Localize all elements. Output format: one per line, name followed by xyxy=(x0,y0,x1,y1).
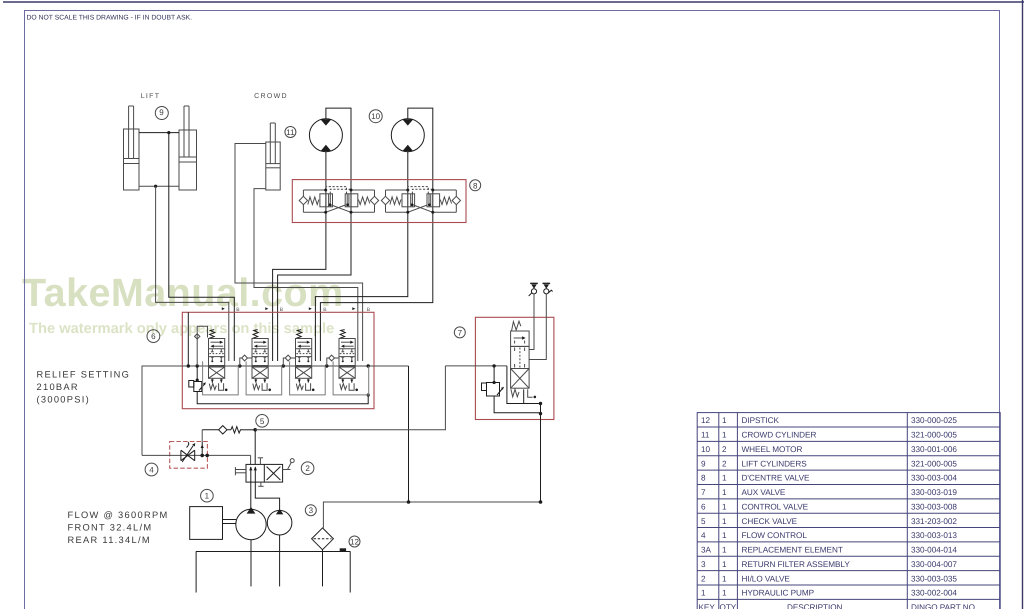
svg-text:1: 1 xyxy=(722,546,727,555)
aux valve middle box xyxy=(511,346,529,368)
wire lift top ports xyxy=(139,132,179,134)
control valve section 3 spool box xyxy=(296,339,312,366)
wire gallery return drop xyxy=(408,366,410,502)
svg-text:RETURN FILTER ASSEMBLY: RETURN FILTER ASSEMBLY xyxy=(742,560,851,569)
svg-text:330-001-006: 330-001-006 xyxy=(911,445,957,454)
svg-text:11: 11 xyxy=(286,128,295,137)
d'centre pair 2 relief valve body left xyxy=(402,194,415,207)
main relief valve xyxy=(189,366,206,392)
control valve section 3 lower marks xyxy=(298,378,310,383)
wire aux relief drain xyxy=(494,396,540,413)
svg-text:(3000PSI): (3000PSI) xyxy=(37,395,91,405)
lift cylinder left rod xyxy=(129,106,134,159)
svg-text:2: 2 xyxy=(701,574,706,583)
wire lift bottom ports xyxy=(139,185,179,187)
control valve section 4 lever bracket xyxy=(349,383,358,391)
wire check valve to aux feed xyxy=(255,366,445,430)
svg-text:3: 3 xyxy=(701,560,706,569)
parts table text xyxy=(699,416,975,609)
flow control riser with arrow xyxy=(201,442,204,456)
wire relief drain xyxy=(197,392,370,404)
wire return line xyxy=(323,502,540,528)
wire aux return drop xyxy=(540,404,542,503)
svg-text:REAR 11.34L/M: REAR 11.34L/M xyxy=(68,535,151,545)
wire lift bottom to valve section 1 port A xyxy=(156,186,229,361)
svg-text:9: 9 xyxy=(159,108,164,117)
hi-lo top port xyxy=(258,458,263,465)
svg-text:5: 5 xyxy=(260,417,265,426)
svg-text:REPLACEMENT ELEMENT: REPLACEMENT ELEMENT xyxy=(742,546,843,555)
item circle 9 xyxy=(155,107,168,120)
d'centre pair 1 relief valve body right xyxy=(345,194,358,207)
junction aux feed xyxy=(492,364,495,367)
svg-text:7: 7 xyxy=(458,328,463,337)
item circle 12 xyxy=(349,536,360,547)
wire pump2 to hi-lo xyxy=(255,482,279,510)
svg-text:330-003-013: 330-003-013 xyxy=(911,531,957,540)
wire check valve inlet elbow xyxy=(201,430,203,442)
d'centre pair 1 check diamond right xyxy=(370,196,378,204)
lift cylinder right piston xyxy=(179,157,197,162)
svg-text:1: 1 xyxy=(722,431,727,440)
svg-text:2: 2 xyxy=(305,464,310,473)
tank drop left xyxy=(195,552,197,593)
item circle 7 xyxy=(454,327,465,338)
svg-text:DESCRIPTION: DESCRIPTION xyxy=(787,603,843,609)
d'centre pair 2 spring right xyxy=(440,197,451,205)
lift cylinder right rod xyxy=(184,106,189,157)
svg-text:330-000-025: 330-000-025 xyxy=(911,416,957,425)
item circle 3 xyxy=(305,505,316,516)
aux valve top spring xyxy=(512,321,521,330)
svg-text:10: 10 xyxy=(701,445,711,454)
flow control restrictor xyxy=(181,442,195,462)
item circle 5 xyxy=(256,415,269,428)
item circle 8 xyxy=(470,180,481,191)
d'centre valve boundary (item 8) xyxy=(292,180,466,223)
svg-text:330-003-004: 330-003-004 xyxy=(911,474,957,483)
svg-text:321-000-005: 321-000-005 xyxy=(911,431,957,440)
control valve section 3 lever bracket xyxy=(306,383,315,391)
control valve section 1 bottom spring xyxy=(209,384,216,390)
control valve section 4 bottom spring xyxy=(340,384,347,390)
control valve section 4 crossed box xyxy=(339,367,355,378)
lift cylinder right barrel xyxy=(179,130,197,190)
svg-text:WHEEL MOTOR: WHEEL MOTOR xyxy=(742,445,803,454)
wire coupler left to aux port A xyxy=(529,294,534,350)
quick coupler right xyxy=(543,283,553,294)
item circle 11 xyxy=(285,127,296,138)
wire coupler right to aux port B xyxy=(529,294,546,360)
svg-text:330-003-019: 330-003-019 xyxy=(911,488,957,497)
control valve section 4 inlet check diamond xyxy=(327,355,339,366)
lift cylinder left barrel xyxy=(124,129,140,190)
d'centre pair 1 crossover lines xyxy=(326,205,351,212)
d'centre pair 2 relief valve body right xyxy=(427,194,440,207)
control valve section 2 lower ports xyxy=(254,357,266,362)
wire aux tank port xyxy=(523,389,525,403)
label flow rates xyxy=(68,510,169,545)
svg-text:210BAR: 210BAR xyxy=(37,382,79,392)
svg-text:330-003-008: 330-003-008 xyxy=(911,502,957,511)
control valve section 2 crossed box xyxy=(252,367,268,378)
aux body outline xyxy=(507,366,541,404)
control valve section 2 center ports xyxy=(253,349,267,353)
control valve section 2 flow arrows xyxy=(254,341,267,348)
svg-text:1: 1 xyxy=(722,574,727,583)
control valve section 1 port labels A B xyxy=(222,307,241,313)
svg-text:FLOW @ 3600RPM: FLOW @ 3600RPM xyxy=(68,510,169,520)
svg-text:LIFT: LIFT xyxy=(141,93,161,100)
control valve section 3 flow arrows xyxy=(297,341,310,348)
control valve section 3 top spring xyxy=(296,330,302,339)
svg-text:KEY: KEY xyxy=(699,603,716,609)
wire flow control to hi-lo valve xyxy=(250,455,252,464)
d'centre pair 1 junctions xyxy=(324,189,352,214)
d'centre pair 1 pilot dashed lines xyxy=(326,187,351,194)
d'centre pair 1 spring left xyxy=(308,197,319,205)
control valve section 2 spool box xyxy=(252,339,268,366)
svg-text:1: 1 xyxy=(722,560,727,569)
wire inlet riser xyxy=(187,312,189,366)
svg-text:CONTROL VALVE: CONTROL VALVE xyxy=(742,502,809,511)
control valve section 1 center ports xyxy=(209,349,224,353)
aux relief valve xyxy=(482,366,505,396)
svg-text:1: 1 xyxy=(701,589,706,598)
item circle 2 xyxy=(301,462,314,475)
aux valve upper box xyxy=(511,331,529,346)
d'centre pair 1 rails xyxy=(303,190,374,212)
svg-text:7: 7 xyxy=(701,488,706,497)
crowd cylinder barrel xyxy=(266,142,280,190)
svg-text:FLOW CONTROL: FLOW CONTROL xyxy=(742,531,808,540)
control valve section 4 center ports xyxy=(340,349,355,353)
item circle 6 xyxy=(147,330,160,343)
svg-text:10: 10 xyxy=(371,112,380,121)
svg-text:1: 1 xyxy=(722,502,727,511)
aux valve bottom bracket xyxy=(528,389,536,398)
svg-text:331-203-002: 331-203-002 xyxy=(911,517,957,526)
d'centre pair 2 check diamond right xyxy=(452,196,460,204)
junction lift bottom xyxy=(154,185,157,188)
junction lift top xyxy=(167,131,170,134)
svg-text:330-003-035: 330-003-035 xyxy=(911,574,957,583)
crowd cylinder rod xyxy=(270,123,275,164)
wire M2 top port loop to section 3 port B xyxy=(320,108,432,361)
hi-lo left ports xyxy=(235,467,246,475)
svg-text:330-004-007: 330-004-007 xyxy=(911,560,957,569)
svg-text:1: 1 xyxy=(722,416,727,425)
drive shaft xyxy=(223,520,237,524)
control valve section 1 flow arrows xyxy=(210,341,223,348)
svg-text:5: 5 xyxy=(701,517,706,526)
control valve section 1 crossed box xyxy=(209,367,225,378)
breather black square xyxy=(340,548,346,551)
svg-text:QTY: QTY xyxy=(720,603,737,609)
svg-text:3: 3 xyxy=(309,506,314,515)
item circle 1 xyxy=(201,489,214,502)
svg-text:3A: 3A xyxy=(701,546,712,555)
aux valve crossed box xyxy=(511,369,529,389)
wheel motor M1 xyxy=(309,119,342,152)
svg-text:2: 2 xyxy=(722,445,727,454)
hi-lo lever xyxy=(283,459,295,470)
junctions flow control xyxy=(200,454,209,458)
d'centre pair 1 check diamond left xyxy=(299,196,307,204)
check valve item 5 line xyxy=(202,429,255,431)
control valve section 3 inlet check diamond xyxy=(283,355,295,366)
d'centre pair 2 check diamond left xyxy=(381,196,389,204)
svg-text:AUX VALVE: AUX VALVE xyxy=(742,488,786,497)
hi-lo bottom port xyxy=(258,482,263,486)
wire check valve drop to hi-lo xyxy=(254,430,256,465)
control valve section 2 bottom spring xyxy=(253,384,260,390)
control valve section 4 lower marks xyxy=(341,378,353,383)
control valve section 4 flow arrows xyxy=(341,341,354,348)
svg-text:11: 11 xyxy=(701,431,710,440)
hi-lo valve flow arrows xyxy=(249,466,257,482)
svg-text:2: 2 xyxy=(722,459,727,468)
control valve section 4 lower ports xyxy=(341,357,353,362)
tank line xyxy=(196,551,351,553)
parts table xyxy=(697,413,1000,609)
svg-text:330-002-004: 330-002-004 xyxy=(911,589,957,598)
svg-text:D'CENTRE VALVE: D'CENTRE VALVE xyxy=(742,474,810,483)
control valve section 3 bottom spring xyxy=(296,384,303,390)
svg-text:321-000-005: 321-000-005 xyxy=(911,459,957,468)
d'centre pair 2 crossover lines xyxy=(408,205,433,212)
control valve section 3 center ports xyxy=(296,349,311,353)
aux valve bottom spring xyxy=(511,389,519,397)
aux valve boundary (item 7) xyxy=(475,317,554,419)
item circle 10 xyxy=(369,110,382,123)
control valve section 1 lower ports xyxy=(211,357,223,362)
wire M2 bottom port to section 3 port A xyxy=(315,152,407,361)
control valve section 4 top spring xyxy=(340,330,346,339)
control valve section 1 lower marks xyxy=(211,378,223,383)
control valve section 3 lower ports xyxy=(298,357,310,362)
svg-text:6: 6 xyxy=(151,332,156,341)
svg-text:8: 8 xyxy=(473,181,478,190)
control valve section 2 lower marks xyxy=(254,378,266,383)
control valve section 3 crossed box xyxy=(296,367,312,378)
svg-text:6: 6 xyxy=(701,502,706,511)
lift cylinder left piston xyxy=(124,159,140,164)
svg-text:12: 12 xyxy=(350,538,359,547)
svg-text:4: 4 xyxy=(149,466,154,475)
svg-text:RELIEF SETTING: RELIEF SETTING xyxy=(37,370,131,380)
control valve section 3 body outline xyxy=(290,361,326,395)
svg-text:4: 4 xyxy=(701,531,706,540)
outer page border top xyxy=(3,1,1024,3)
d'centre pair 2 spring left xyxy=(390,197,401,205)
label relief setting xyxy=(37,370,131,405)
wheel motor M2 xyxy=(391,119,424,152)
d'centre pair 2 pilot dashed lines xyxy=(408,187,433,194)
engine box xyxy=(190,507,223,540)
svg-text:1: 1 xyxy=(722,488,727,497)
junction return line xyxy=(407,500,543,504)
gallery junctions xyxy=(187,364,370,367)
control valve section 2 top spring xyxy=(253,330,259,339)
svg-text:HYDRAULIC PUMP: HYDRAULIC PUMP xyxy=(742,589,815,598)
control valve assembly boundary (item 6) xyxy=(182,312,374,408)
wire aux feed xyxy=(445,365,507,367)
svg-text:12: 12 xyxy=(701,416,711,425)
control valve section 2 body outline xyxy=(246,361,282,395)
wire M1 bottom port to section 2 port A xyxy=(273,152,326,361)
control valve section 1 top spring xyxy=(209,330,215,339)
hydraulic pump 2 xyxy=(267,509,292,535)
flow control boundary dashed (item 4) xyxy=(170,442,208,469)
svg-text:HI/LO VALVE: HI/LO VALVE xyxy=(742,574,791,583)
d'centre pair 2 rails xyxy=(386,190,457,212)
control valve section 1 lever bracket xyxy=(219,383,228,391)
d'centre pair 1 spring right xyxy=(358,197,369,205)
svg-text:1: 1 xyxy=(722,517,727,526)
svg-text:The watermark only appears on: The watermark only appears on this sampl… xyxy=(29,321,334,337)
d'centre pair 1 relief valve body left xyxy=(320,194,333,207)
control valve section 2 lever bracket xyxy=(262,383,271,391)
hi-lo valve body xyxy=(246,464,283,482)
svg-text:DO NOT SCALE THIS DRAWING - IF: DO NOT SCALE THIS DRAWING - IF IN DOUBT … xyxy=(27,15,193,22)
svg-text:1: 1 xyxy=(722,589,727,598)
svg-text:LIFT CYLINDERS: LIFT CYLINDERS xyxy=(742,459,808,468)
control valve section 1 body outline xyxy=(203,361,239,395)
svg-text:1: 1 xyxy=(205,492,210,501)
tank drop filter xyxy=(322,550,324,587)
item circle 4 xyxy=(145,463,158,476)
flow control through line xyxy=(142,454,251,456)
wire crowd top to valve section 4 port B xyxy=(235,144,363,362)
hi-lo valve crossed square xyxy=(267,467,281,480)
junction aux return xyxy=(539,402,542,416)
check valve spring xyxy=(227,427,242,433)
wire pump2 suction xyxy=(279,535,281,586)
wire pump1 to hi-lo xyxy=(250,482,252,510)
outer page border right xyxy=(1022,0,1024,609)
svg-text:DINGO PART NO: DINGO PART NO xyxy=(911,603,975,609)
hydraulic pump 1 xyxy=(236,507,266,540)
control valve section 2 inlet check diamond xyxy=(240,355,252,366)
svg-text:CROWD: CROWD xyxy=(254,93,288,100)
svg-text:1: 1 xyxy=(722,474,727,483)
svg-text:1: 1 xyxy=(722,531,727,540)
control valve section 1 spool box xyxy=(209,339,225,366)
tank drop right xyxy=(349,552,351,593)
svg-text:TakeManual.com: TakeManual.com xyxy=(22,271,344,315)
d'centre pair 2 junctions xyxy=(406,189,434,214)
control valve section 3 port labels A B xyxy=(309,307,328,313)
quick coupler left xyxy=(529,283,538,296)
svg-text:9: 9 xyxy=(701,459,706,468)
control valve section 2 port labels A B xyxy=(265,307,284,313)
section 1 feed riser and check diamond xyxy=(195,326,208,366)
svg-text:330-004-014: 330-004-014 xyxy=(911,546,957,555)
svg-text:DIPSTICK: DIPSTICK xyxy=(742,416,780,425)
svg-text:FRONT 32.4L/M: FRONT 32.4L/M xyxy=(68,523,153,533)
wire lift top to valve section 1 port B xyxy=(169,133,235,361)
wire pump1 suction xyxy=(250,540,252,587)
return filter diamond xyxy=(312,528,334,550)
wire crowd bottom to valve section 4 port A xyxy=(254,189,358,361)
svg-text:CROWD CYLINDER: CROWD CYLINDER xyxy=(742,431,817,440)
svg-text:8: 8 xyxy=(701,474,706,483)
control valve section 4 port labels A B xyxy=(352,307,371,313)
control valve section 4 body outline xyxy=(333,361,369,395)
control valve section 4 spool box xyxy=(339,339,355,366)
svg-text:CHECK VALVE: CHECK VALVE xyxy=(742,517,798,526)
wire M1 top port loop to section 2 port B xyxy=(278,108,351,361)
crowd cylinder piston xyxy=(266,164,280,168)
check valve diamond xyxy=(219,426,227,434)
junction check valve outlet xyxy=(253,428,257,432)
wire supply gallery xyxy=(142,366,409,455)
